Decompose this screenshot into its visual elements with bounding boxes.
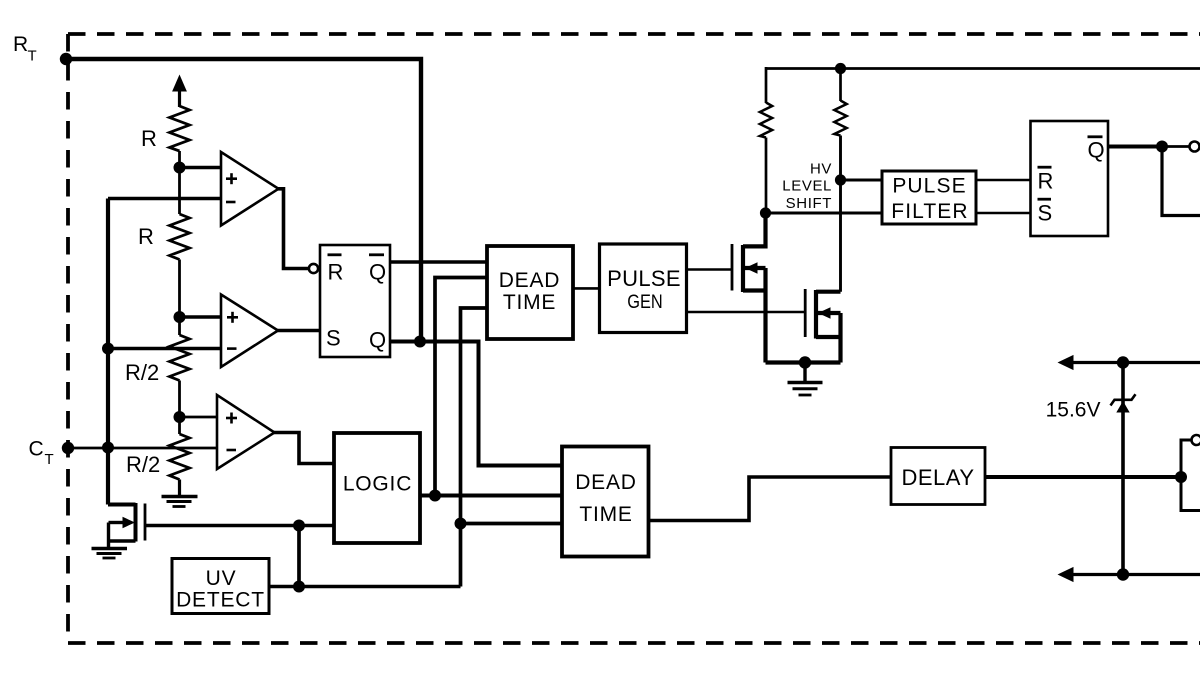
bubble high-side driver input	[1190, 142, 1200, 152]
bubble low-side driver input	[1192, 435, 1200, 445]
svg-text:DELAY: DELAY	[901, 465, 974, 490]
inverting bubble at latch R input	[309, 264, 318, 273]
node bus CT junction	[102, 442, 114, 454]
wire zener bus vertical	[1121, 363, 1125, 575]
node divider tap 1	[174, 162, 186, 174]
node DELAY output branch	[1175, 471, 1187, 483]
LOGIC box	[334, 433, 420, 543]
resistor R/2 (second)	[170, 434, 190, 480]
svg-text:FILTER: FILTER	[891, 200, 968, 223]
transistor Q1 level-shift MOSFET	[732, 213, 766, 363]
svg-text:R: R	[1038, 169, 1054, 194]
wire CT to comparator3 - input	[68, 447, 218, 450]
wire Q1/Q2 source rail	[766, 360, 841, 364]
svg-text:DEAD: DEAD	[499, 269, 561, 292]
RS latch U1 box	[320, 245, 390, 357]
node HV rail tap	[835, 63, 846, 74]
wire comparator3 output to LOGIC	[273, 433, 334, 464]
wire chain segment	[178, 381, 181, 418]
svg-text:Q: Q	[1088, 138, 1105, 163]
wire comparator2 - input	[108, 347, 222, 350]
node bus to comparator2 -	[102, 343, 114, 355]
svg-text:GEN: GEN	[627, 291, 663, 313]
svg-text:T: T	[28, 48, 37, 65]
wire UV riser to DEAD TIME 1	[461, 308, 493, 587]
svg-text:R: R	[138, 224, 154, 249]
svg-text:R: R	[13, 33, 28, 56]
svg-text:Q: Q	[369, 260, 386, 285]
wire gate-line drop to UV output	[297, 526, 301, 587]
wire comparator1 - input	[108, 197, 222, 200]
wire chain segment	[178, 317, 181, 335]
resistor level-shift right	[839, 69, 842, 102]
DEAD TIME 2 box	[562, 447, 649, 557]
resistor R (top)	[170, 106, 190, 151]
wire latch U2 Qbar output	[1108, 145, 1162, 149]
svg-text:R: R	[328, 260, 344, 285]
node CT pin dot	[62, 442, 74, 454]
wire tap3 to comparator3 +	[180, 416, 219, 419]
svg-text:S: S	[1038, 201, 1053, 226]
wire PULSE GEN out1 to Q1 gate	[687, 268, 733, 271]
ground M1 source	[92, 549, 128, 559]
wire PULSE GEN out2 to Q2 gate	[687, 311, 806, 314]
resistor level-shift left	[765, 67, 768, 103]
wire PULSE FILTER to latch U2 Rbar	[976, 179, 1031, 182]
node left resistor to Q1 drain	[760, 207, 771, 218]
wire chain segment	[178, 417, 181, 434]
wire resistor to ground	[178, 480, 181, 497]
node LOGIC output junction	[429, 490, 441, 502]
wire UV junction to DEAD TIME 2	[461, 522, 567, 526]
svg-text:LOGIC: LOGIC	[343, 473, 412, 496]
wire chain segment	[178, 260, 181, 318]
wire comparator2 output to latch S input	[277, 329, 321, 333]
node right resistor to pulse filter	[835, 174, 846, 185]
wire comparator1 output to latch R bubble	[277, 189, 310, 269]
wire RT rail: pin to vertical drop	[66, 59, 421, 342]
svg-text:LEVEL: LEVEL	[782, 178, 832, 195]
wire DELAY output	[985, 475, 1181, 479]
IC dashed boundary bottom	[68, 641, 1200, 645]
wire level shift top to PULSE FILTER	[841, 179, 883, 182]
arrow top (to Vcc pin)	[1058, 355, 1074, 370]
transistor M1 CT discharge MOSFET	[108, 503, 145, 548]
wire bottom arrow rail	[1066, 573, 1200, 576]
resistor R (second)	[170, 214, 190, 260]
ground level-shift	[803, 363, 806, 383]
op-amp comparator1	[221, 152, 279, 226]
node top arrow junction	[1117, 356, 1129, 368]
resistor R/2 (first)	[170, 335, 190, 381]
svg-text:C: C	[29, 438, 44, 461]
node divider tap 2	[174, 311, 186, 323]
svg-text:T: T	[45, 451, 54, 468]
wire latch U1 Qbar to DEAD TIME 1	[390, 260, 492, 263]
op-amp comparator2	[221, 295, 278, 368]
svg-text:TIME: TIME	[579, 503, 632, 526]
node junction dot RT-vertical to Q wire	[414, 336, 426, 348]
wire tap1 to comparator1 +	[180, 166, 223, 169]
wire Qbar to driver bubble	[1162, 145, 1190, 148]
wire top arrow rail	[1066, 361, 1200, 364]
svg-text:DEAD: DEAD	[575, 471, 637, 494]
PULSE GEN box	[600, 244, 687, 333]
wire tap2 to comparator2 +	[180, 315, 223, 318]
node Qbar branch	[1156, 141, 1168, 153]
svg-text:S: S	[326, 326, 341, 351]
node UV output to logic-gate wire junction	[293, 581, 305, 593]
transistor Q2 level-shift MOSFET	[805, 289, 840, 363]
wire branch to low-side driver	[1181, 440, 1192, 477]
wire latch U1 Q output to DEAD TIME 2	[390, 342, 566, 466]
Vcc arrow at top of divider	[178, 88, 181, 107]
node divider tap 3	[174, 411, 186, 423]
ground divider	[162, 497, 198, 507]
wire DEAD TIME 2 output to DELAY	[649, 477, 892, 521]
arrow bottom (to COM pin)	[1058, 567, 1074, 582]
svg-text:Q: Q	[369, 328, 386, 353]
wire DEAD TIME 1 output to PULSE GEN	[573, 287, 600, 290]
wire PULSE FILTER to latch U2 Sbar	[976, 212, 1031, 215]
wire chain segment	[178, 168, 181, 215]
svg-text:SHIFT: SHIFT	[786, 195, 832, 212]
svg-text:PULSE: PULSE	[607, 266, 681, 291]
wire HV top rail	[766, 67, 1200, 70]
node source rail ground junction	[799, 356, 811, 368]
UV DETECT box	[172, 559, 269, 614]
svg-text:15.6V: 15.6V	[1046, 399, 1101, 422]
wire Qbar branch down and right	[1162, 147, 1200, 216]
op-amp comparator3	[217, 395, 275, 469]
wire left bus vertical	[106, 199, 110, 505]
wire UV DETECT output	[269, 585, 461, 588]
node UV riser junction	[455, 518, 467, 530]
svg-text:UV: UV	[206, 567, 237, 590]
wire CT discharge MOSFET gate line to LOGIC	[146, 524, 335, 527]
svg-text:R/2: R/2	[126, 452, 160, 477]
DELAY box	[891, 448, 985, 505]
wire branch down right	[1181, 477, 1200, 511]
IC dashed boundary top	[68, 32, 1200, 36]
svg-text:DETECT: DETECT	[176, 589, 265, 612]
svg-text:PULSE: PULSE	[892, 175, 966, 198]
PULSE FILTER box	[882, 171, 976, 224]
wire level shift bottom to PULSE FILTER	[766, 212, 883, 215]
IC dashed boundary left	[66, 34, 70, 643]
node gate line junction	[293, 520, 305, 532]
svg-text:HV: HV	[810, 161, 832, 178]
svg-text:R: R	[141, 126, 157, 151]
node bottom arrow junction	[1117, 568, 1129, 580]
wire LOGIC output to DEAD TIME 2	[420, 494, 566, 498]
svg-text:TIME: TIME	[503, 291, 556, 314]
zener diode 15.6V	[1116, 401, 1129, 413]
RS latch U2 box	[1031, 121, 1109, 236]
svg-text:R/2: R/2	[125, 360, 159, 385]
DEAD TIME 1 box	[487, 246, 573, 339]
wire chain segment	[178, 151, 181, 168]
wire LOGIC output riser to DEAD TIME 1	[435, 278, 492, 496]
node RT pin dot	[60, 53, 72, 65]
